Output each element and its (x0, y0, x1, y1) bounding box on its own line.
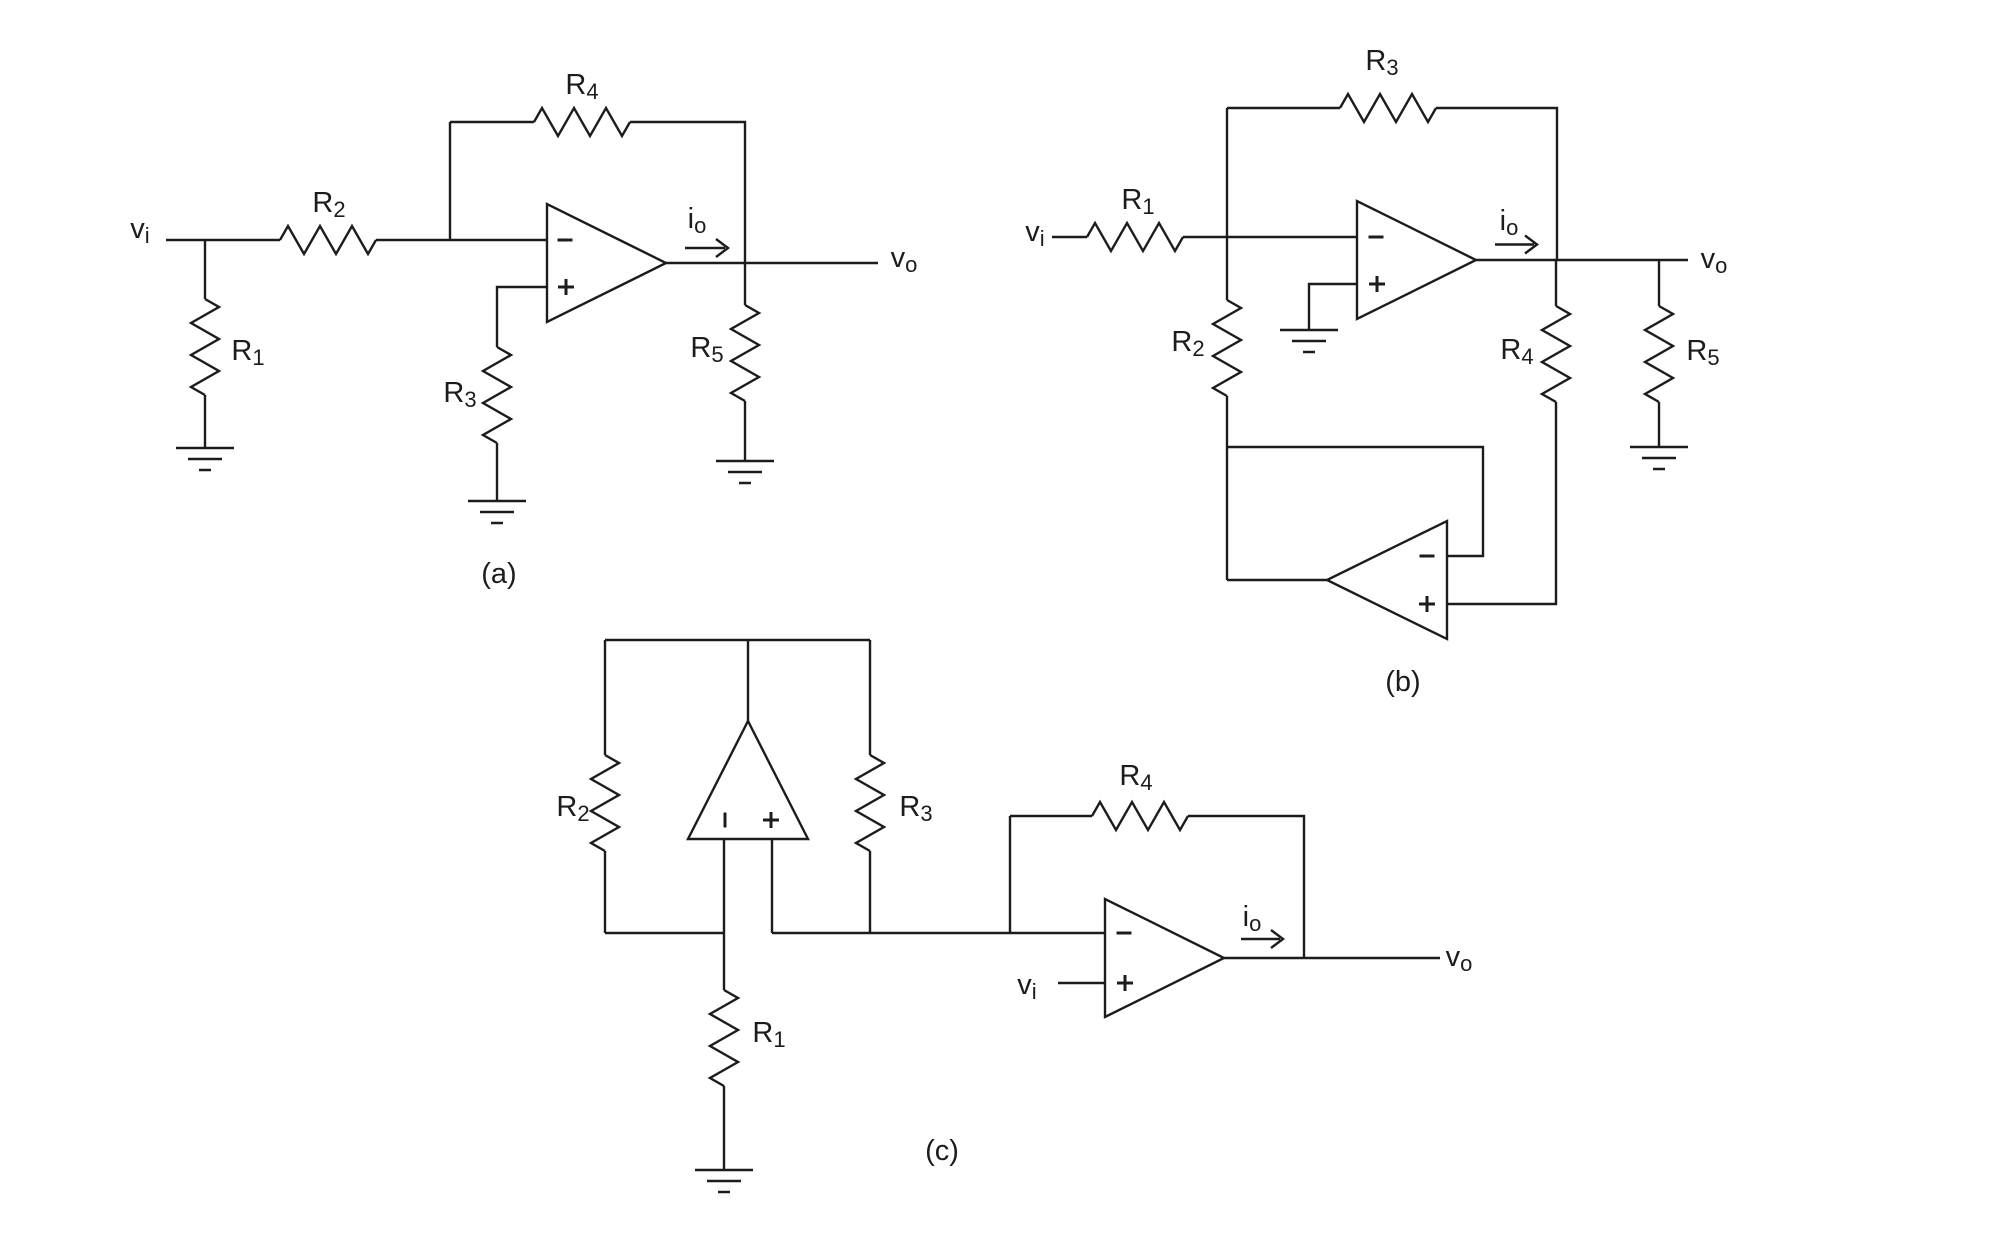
wire top rail left (a) (450, 121, 534, 123)
wire output node to R5 (a) (744, 263, 746, 305)
op-amp U2 (b) (1357, 201, 1476, 319)
op-amp U3 (b) (1327, 521, 1447, 639)
wire minus input down to R1 (c) (723, 839, 725, 990)
op-amp U1 (a) (547, 204, 666, 322)
resistor R4 (a) (534, 108, 630, 136)
wire vi to R1 (b) (1052, 236, 1087, 238)
wire R1 to ground (a) (204, 395, 206, 448)
wire vi to plus input (c) (1058, 982, 1105, 984)
svg-text:vi: vi (1017, 969, 1036, 1004)
svg-text:vi: vi (130, 213, 149, 248)
resistor R1 (a) (191, 299, 219, 395)
resistor R1 (c) (710, 990, 738, 1086)
svg-text:R2: R2 (556, 791, 589, 826)
wire output (b) (1476, 259, 1688, 261)
wire R1 to ground (c) (723, 1086, 725, 1170)
ground R5 (b) (1630, 447, 1688, 469)
ground U2 plus (b) (1280, 330, 1338, 352)
resistor R3 (a) (483, 347, 511, 443)
wire feedback tap up (a) (449, 122, 451, 240)
resistor R2 (a) (280, 226, 376, 254)
svg-text:R4: R4 (1119, 760, 1152, 795)
wire U3 minus loop (b) (1227, 447, 1483, 556)
svg-text:(c): (c) (925, 1135, 959, 1167)
wire U3 output to R2 node (b) (1227, 579, 1327, 581)
ground R3 (a) (468, 501, 526, 523)
svg-text:io: io (1500, 205, 1519, 240)
wire R3 top branch (c) (869, 640, 871, 755)
svg-text:io: io (688, 203, 707, 238)
wire output (a) (666, 262, 878, 264)
wire feedback rail left (c) (1010, 815, 1092, 817)
pin plus U1 (a) (558, 279, 574, 295)
wire bottom rail left (c) (605, 932, 724, 934)
wire feedback tap up (c) (1009, 816, 1011, 933)
wire top rail right (a) (630, 122, 745, 263)
pin minus U3 (b) (1420, 555, 1435, 558)
wire vi to R2 (a) (166, 239, 280, 241)
wire R2 to bottom rail (c) (604, 851, 606, 933)
pin minus U2 (b) (1369, 236, 1384, 239)
svg-text:io: io (1243, 901, 1262, 936)
wire op-amp output up (c) (747, 640, 749, 721)
svg-text:R3: R3 (899, 791, 932, 826)
wire R3 to ground (a) (496, 443, 498, 501)
arrow io (c) (1241, 938, 1280, 940)
resistor R4 (b) (1542, 306, 1570, 402)
wire R2 top branch (c) (604, 640, 606, 755)
ground R5 (a) (716, 461, 774, 483)
wire top rail (c) (605, 639, 870, 641)
ground R1 (c) (695, 1170, 753, 1192)
op-amp U5 (c) (1105, 899, 1224, 1017)
pin minus U5 (c) (1117, 932, 1132, 935)
svg-text:vo: vo (891, 242, 918, 277)
wire output (c) (1224, 957, 1440, 959)
svg-text:R5: R5 (1686, 335, 1719, 370)
wire feedback rail right (c) (1188, 816, 1304, 958)
wire R1 to op-amp inverting input (b) (1183, 236, 1357, 238)
svg-text:R1: R1 (1121, 184, 1154, 219)
svg-text:R2: R2 (312, 187, 345, 222)
svg-text:R1: R1 (752, 1017, 785, 1052)
pin minus U1 (a) (558, 239, 573, 242)
wire R5 to ground (a) (744, 401, 746, 461)
resistor R2 (b) (1213, 300, 1241, 396)
svg-text:R2: R2 (1171, 326, 1204, 361)
wire plus input to ground (b) (1309, 284, 1357, 330)
pin plus U5 (c) (1117, 975, 1133, 991)
wire plus input to R3 (a) (497, 287, 547, 347)
svg-text:R4: R4 (565, 69, 598, 104)
wire plus input down (c) (771, 839, 773, 933)
svg-text:(a): (a) (481, 558, 516, 590)
pin minus U4 (c) (724, 813, 727, 828)
pin plus U4 (c) (763, 812, 779, 828)
arrow io (b) (1495, 243, 1534, 245)
resistor R5 (b) (1645, 306, 1673, 402)
wire top rail left (b) (1227, 107, 1340, 109)
wire R2 to op-amp inverting input (a) (376, 239, 547, 241)
wire R5 to ground (b) (1658, 402, 1660, 447)
arrow io (a) (685, 247, 725, 249)
resistor R3 (b) (1340, 94, 1436, 122)
wire bottom rail right (c) (772, 932, 1105, 934)
wire node down to R2 (b) (1226, 237, 1228, 300)
resistor R5 (a) (731, 305, 759, 401)
wire output node to R4 (b) (1555, 260, 1557, 306)
svg-text:vo: vo (1701, 243, 1728, 278)
resistor R3 (c) (856, 755, 884, 851)
svg-text:vi: vi (1025, 216, 1044, 251)
wire R4 to lower op-amp plus (b) (1447, 402, 1556, 604)
svg-text:R3: R3 (1365, 45, 1398, 80)
wire node up to top rail (b) (1226, 108, 1228, 237)
wire R2 to lower op-amp output (b) (1226, 396, 1228, 580)
op-amp U4 (c) (688, 721, 808, 839)
svg-text:vo: vo (1446, 941, 1473, 976)
resistor R4 (c) (1092, 802, 1188, 830)
ground R1 (a) (176, 448, 234, 470)
svg-text:R3: R3 (443, 377, 476, 412)
wire R3 to bottom rail (c) (869, 851, 871, 933)
resistor R1 (b) (1087, 223, 1183, 251)
wire output node to R5 (b) (1658, 260, 1660, 306)
svg-text:R1: R1 (231, 335, 264, 370)
svg-text:R5: R5 (690, 332, 723, 367)
resistor R2 (c) (591, 755, 619, 851)
wire node to R1 (a) (204, 240, 206, 299)
pin plus U2 (b) (1369, 276, 1385, 292)
svg-text:(b): (b) (1385, 666, 1420, 698)
pin plus U3 (b) (1419, 596, 1435, 612)
wire top rail right (b) (1436, 108, 1557, 260)
svg-text:R4: R4 (1500, 334, 1533, 369)
